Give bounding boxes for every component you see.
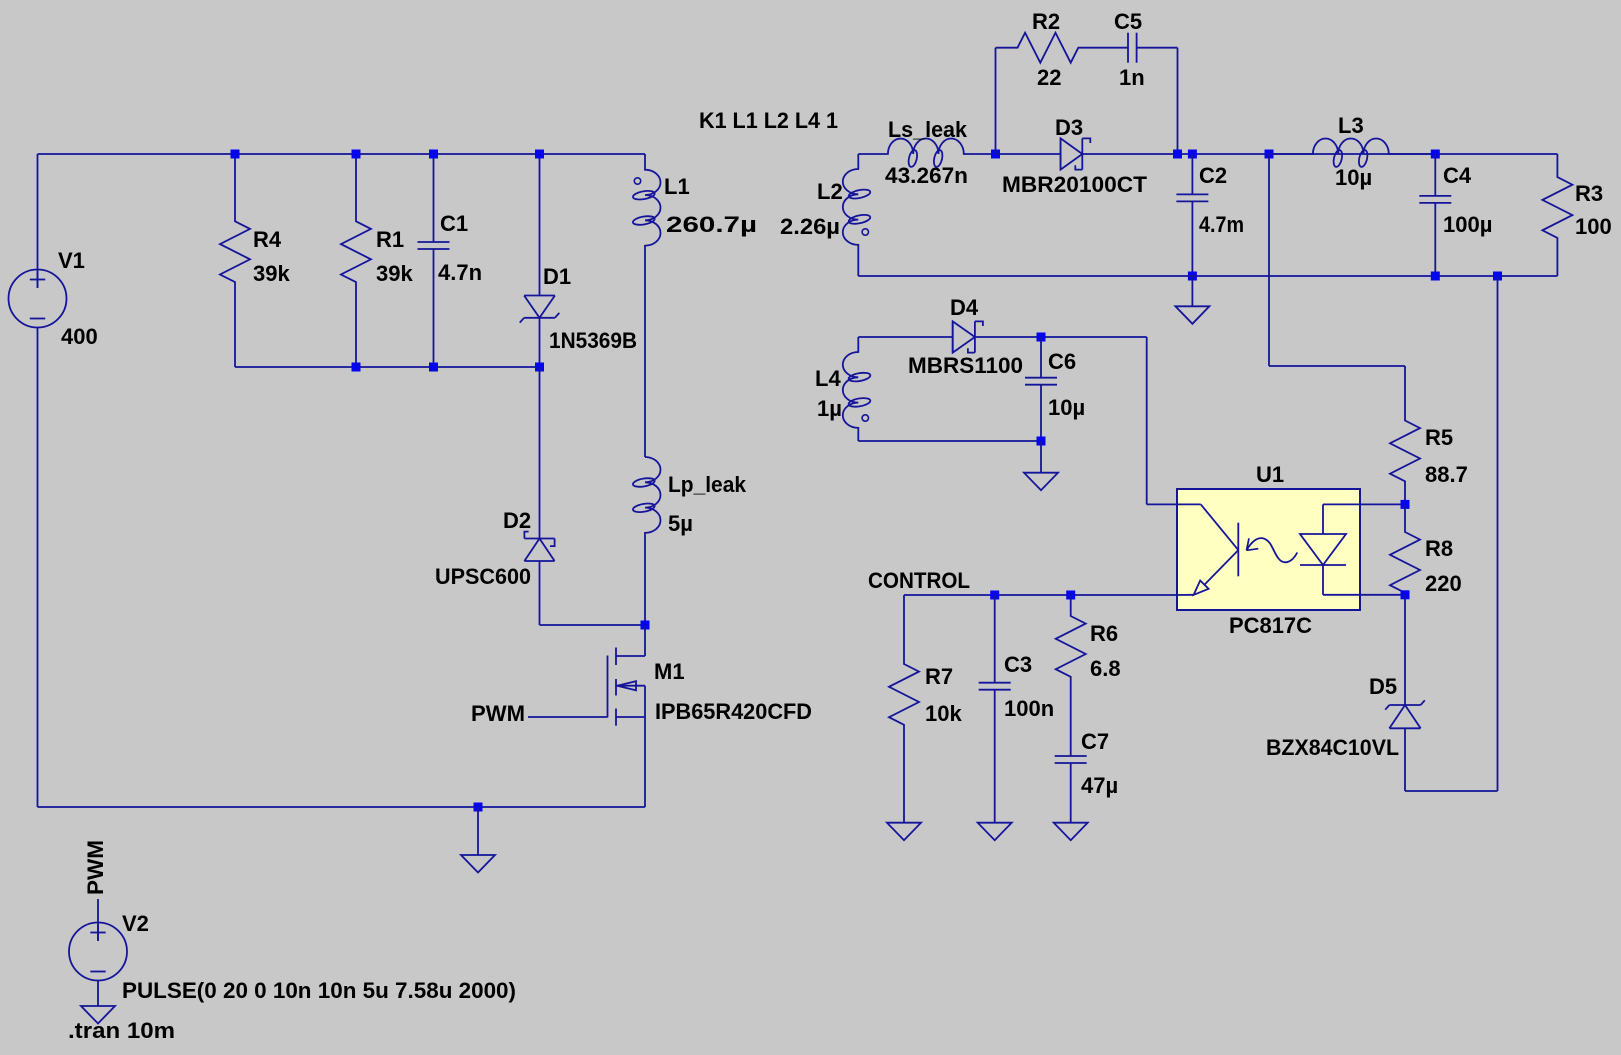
resistor R2 <box>996 33 1129 63</box>
svg-text:Ls_leak: Ls_leak <box>888 117 968 142</box>
capacitor C3 <box>979 595 1011 823</box>
ground <box>1054 823 1088 841</box>
svg-text:BZX84C10VL: BZX84C10VL <box>1266 735 1399 760</box>
wire <box>235 366 540 368</box>
label M1 <box>654 659 685 684</box>
junction <box>535 150 544 159</box>
value 220 <box>1425 571 1462 596</box>
label L2 <box>817 179 843 204</box>
value IPB65R420CFD <box>655 699 812 724</box>
svg-text:10µ: 10µ <box>1048 395 1085 420</box>
svg-text:100n: 100n <box>1004 696 1054 721</box>
wire <box>38 153 646 155</box>
svg-text:MBRS1100: MBRS1100 <box>908 353 1023 378</box>
label C3 <box>1004 652 1032 677</box>
ground <box>81 1006 115 1024</box>
value 2.26u <box>780 214 840 239</box>
svg-text:D2: D2 <box>503 508 531 533</box>
junction <box>474 803 483 812</box>
svg-text:PC817C: PC817C <box>1229 613 1312 638</box>
label R4 <box>253 227 282 252</box>
transistor M1 <box>608 625 646 807</box>
label R5 <box>1425 425 1453 450</box>
wire <box>858 336 952 338</box>
junction <box>1037 333 1046 342</box>
value PC817C <box>1229 613 1312 638</box>
ground <box>978 823 1012 841</box>
ground <box>1024 473 1058 491</box>
resistor R1 <box>341 154 371 367</box>
capacitor C1 <box>418 154 450 367</box>
wire <box>38 806 646 808</box>
svg-text:220: 220 <box>1425 571 1462 596</box>
ground <box>887 823 921 841</box>
voltage source V2 <box>69 923 127 981</box>
capacitor C2 <box>1176 154 1208 276</box>
wire <box>528 716 608 718</box>
value UPSC600 <box>435 564 531 589</box>
svg-text:MBR20100CT: MBR20100CT <box>1002 172 1148 197</box>
svg-text:R7: R7 <box>925 664 953 689</box>
directive .tran 10m <box>68 1018 175 1043</box>
svg-text:PWM: PWM <box>471 701 525 726</box>
label C2 <box>1199 163 1227 188</box>
svg-text:100: 100 <box>1575 214 1612 239</box>
svg-text:L3: L3 <box>1338 113 1364 138</box>
svg-text:39k: 39k <box>376 261 413 286</box>
svg-text:R2: R2 <box>1032 9 1060 34</box>
resistor R6 <box>1056 595 1086 756</box>
svg-text:PWM: PWM <box>83 840 108 895</box>
voltage source V1 <box>9 270 67 328</box>
value 6.8 <box>1090 656 1121 681</box>
label C4 <box>1443 163 1472 188</box>
junction <box>1431 150 1440 159</box>
wire <box>904 594 1177 596</box>
junction <box>1188 272 1197 281</box>
label L3 <box>1338 113 1364 138</box>
value 1N5369B <box>549 328 637 353</box>
wire <box>995 48 997 154</box>
schottky diode D2 <box>524 367 554 625</box>
svg-text:D1: D1 <box>543 264 571 289</box>
svg-text:K1 L1 L2 L4 1: K1 L1 L2 L4 1 <box>699 108 838 133</box>
svg-text:4.7m: 4.7m <box>1199 212 1244 237</box>
wire <box>1360 503 1405 505</box>
svg-text:Lp_leak: Lp_leak <box>668 472 747 497</box>
svg-text:C7: C7 <box>1081 729 1109 754</box>
junction <box>535 363 544 372</box>
svg-text:C5: C5 <box>1114 9 1142 34</box>
value MBR20100CT <box>1002 172 1148 197</box>
label D5 <box>1369 674 1397 699</box>
svg-text:IPB65R420CFD: IPB65R420CFD <box>655 699 812 724</box>
inductor Ls_leak <box>888 139 996 168</box>
svg-text:R1: R1 <box>376 227 404 252</box>
svg-text:1n: 1n <box>1119 65 1145 90</box>
svg-text:260.7µ: 260.7µ <box>666 212 757 237</box>
svg-text:5µ: 5µ <box>668 511 693 536</box>
wire <box>996 153 1061 155</box>
label V1 <box>58 248 85 273</box>
resistor R8 <box>1390 504 1420 594</box>
svg-text:C6: C6 <box>1048 349 1076 374</box>
wire <box>1146 337 1148 504</box>
svg-text:1N5369B: 1N5369B <box>549 328 637 353</box>
schottky diode D4 <box>953 321 983 352</box>
capacitor C6 <box>1025 337 1057 441</box>
wire <box>97 981 99 1007</box>
inductor L4 <box>843 337 871 441</box>
junction <box>352 150 361 159</box>
junction <box>231 150 240 159</box>
value 88.7 <box>1425 462 1468 487</box>
label C5 <box>1114 9 1142 34</box>
svg-text:R4: R4 <box>253 227 282 252</box>
node CONTROL <box>868 568 970 593</box>
value 10u <box>1048 395 1085 420</box>
svg-text:1µ: 1µ <box>817 396 842 421</box>
label R2 <box>1032 9 1060 34</box>
value 10u <box>1335 165 1372 190</box>
svg-text:L1: L1 <box>664 174 690 199</box>
wire <box>1497 276 1499 791</box>
junction <box>1431 272 1440 281</box>
junction <box>641 621 650 630</box>
wire <box>477 807 479 855</box>
wire <box>1147 503 1177 505</box>
junction <box>1037 437 1046 446</box>
capacitor C7 <box>1055 756 1087 823</box>
zener diode D5 <box>1385 595 1425 791</box>
label D3 <box>1055 115 1083 140</box>
svg-text:D4: D4 <box>950 295 979 320</box>
label R7 <box>925 664 953 689</box>
svg-text:D5: D5 <box>1369 674 1397 699</box>
svg-text:D3: D3 <box>1055 115 1083 140</box>
value 400 <box>61 324 98 349</box>
node PWM <box>83 840 108 895</box>
inductor L3 <box>1269 138 1435 167</box>
label D2 <box>503 508 531 533</box>
wire <box>97 899 99 941</box>
wire <box>1177 48 1179 154</box>
svg-text:43.267n: 43.267n <box>885 163 968 188</box>
value MBRS1100 <box>908 353 1023 378</box>
resistor R3 <box>1542 154 1572 276</box>
svg-text:CONTROL: CONTROL <box>868 568 970 593</box>
svg-text:V2: V2 <box>122 911 149 936</box>
svg-text:.tran 10m: .tran 10m <box>68 1018 175 1043</box>
label R8 <box>1425 536 1453 561</box>
wire <box>540 624 646 626</box>
svg-text:C2: C2 <box>1199 163 1227 188</box>
svg-text:V1: V1 <box>58 248 85 273</box>
svg-text:100µ: 100µ <box>1443 212 1492 237</box>
junction <box>1493 272 1502 281</box>
resistor R5 <box>1390 366 1420 504</box>
label R1 <box>376 227 404 252</box>
svg-text:6.8: 6.8 <box>1090 656 1121 681</box>
junction <box>429 363 438 372</box>
wire <box>37 328 39 808</box>
schottky diode D3 <box>1061 138 1091 169</box>
capacitor C5 <box>1128 33 1178 63</box>
svg-text:4.7n: 4.7n <box>438 260 482 285</box>
wire <box>975 336 1147 338</box>
svg-text:PULSE(0 20 0 10n 10n 5u 7.58u: PULSE(0 20 0 10n 10n 5u 7.58u 2000) <box>122 978 516 1003</box>
label D1 <box>543 264 571 289</box>
junction <box>990 591 999 600</box>
wire <box>1040 441 1042 473</box>
value 1u <box>817 396 842 421</box>
svg-text:22: 22 <box>1037 65 1061 90</box>
value 22 <box>1037 65 1061 90</box>
junction <box>1173 150 1182 159</box>
value 4.7m <box>1199 212 1244 237</box>
label R3 <box>1575 181 1603 206</box>
svg-text:M1: M1 <box>654 659 685 684</box>
wire <box>1082 153 1557 155</box>
value 100u <box>1443 212 1492 237</box>
wire <box>1268 154 1270 366</box>
junction <box>352 363 361 372</box>
op-amp U1 optocoupler PC817 <box>1177 489 1360 610</box>
resistor R7 <box>889 595 919 823</box>
ground <box>1175 306 1209 324</box>
svg-text:UPSC600: UPSC600 <box>435 564 531 589</box>
svg-text:L2: L2 <box>817 179 843 204</box>
label C7 <box>1081 729 1109 754</box>
wire <box>858 153 888 155</box>
value PULSE <box>122 978 516 1003</box>
wire <box>1191 276 1193 306</box>
svg-text:C3: C3 <box>1004 652 1032 677</box>
value 10k <box>925 701 962 726</box>
wire <box>644 533 646 625</box>
junction <box>1188 150 1197 159</box>
value 5u <box>668 511 693 536</box>
svg-text:2.26µ: 2.26µ <box>780 214 840 239</box>
label C1 <box>440 211 468 236</box>
svg-text:R8: R8 <box>1425 536 1453 561</box>
label D4 <box>950 295 979 320</box>
label R6 <box>1090 621 1118 646</box>
value 43.267n <box>885 163 968 188</box>
inductor Lp_leak <box>632 457 660 533</box>
wire <box>1405 790 1498 792</box>
junction <box>991 150 1000 159</box>
junction <box>1401 590 1410 599</box>
label C6 <box>1048 349 1076 374</box>
wire <box>644 245 646 457</box>
value 39k <box>253 261 290 286</box>
junction <box>1401 500 1410 509</box>
label Ls_leak <box>888 117 968 142</box>
svg-text:47µ: 47µ <box>1081 773 1118 798</box>
svg-text:U1: U1 <box>1256 462 1284 487</box>
svg-text:400: 400 <box>61 324 98 349</box>
label L4 <box>815 366 841 391</box>
svg-text:10µ: 10µ <box>1335 165 1372 190</box>
label L1 <box>664 174 690 199</box>
svg-text:C4: C4 <box>1443 163 1472 188</box>
wire <box>1269 365 1405 367</box>
wire <box>1360 594 1405 596</box>
value 39k <box>376 261 413 286</box>
text K1 L1 L2 L4 1 <box>699 108 838 133</box>
svg-text:R6: R6 <box>1090 621 1118 646</box>
label Lp_leak <box>668 472 747 497</box>
label V2 <box>122 911 149 936</box>
svg-text:39k: 39k <box>253 261 290 286</box>
value 1n <box>1119 65 1145 90</box>
junction <box>429 150 438 159</box>
svg-text:C1: C1 <box>440 211 468 236</box>
zener diode D1 <box>520 154 560 367</box>
node PWM gate label <box>471 701 525 726</box>
value 100 <box>1575 214 1612 239</box>
svg-text:88.7: 88.7 <box>1425 462 1468 487</box>
inductor L2 <box>843 154 871 276</box>
svg-text:R3: R3 <box>1575 181 1603 206</box>
wire <box>858 440 1041 442</box>
ground <box>461 855 495 873</box>
junction <box>1265 150 1274 159</box>
junction <box>1066 591 1075 600</box>
svg-text:L4: L4 <box>815 366 841 391</box>
svg-text:10k: 10k <box>925 701 962 726</box>
wire <box>858 275 1557 277</box>
label U1 <box>1256 462 1284 487</box>
resistor R4 <box>220 154 250 367</box>
wire <box>37 154 39 288</box>
value BZX84C10VL <box>1266 735 1399 760</box>
value 260.7u <box>666 212 757 237</box>
value 4.7n <box>438 260 482 285</box>
inductor L1 <box>632 154 660 246</box>
value 100n <box>1004 696 1054 721</box>
capacitor C4 <box>1419 154 1451 276</box>
value 47u <box>1081 773 1118 798</box>
svg-text:R5: R5 <box>1425 425 1453 450</box>
